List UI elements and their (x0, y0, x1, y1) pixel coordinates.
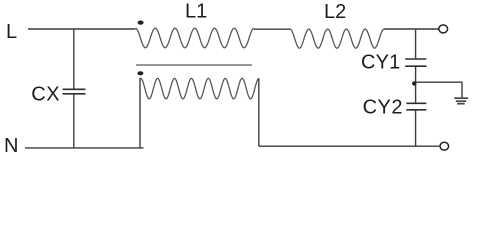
wire L2 to line output terminal (384, 28, 439, 30)
capacitor CX (63, 89, 86, 94)
svg-text:CY2: CY2 (363, 97, 403, 119)
svg-text:CY1: CY1 (361, 52, 401, 74)
wire CY2 to N line (415, 111, 417, 147)
wire top line to CY1 (415, 29, 417, 58)
capacitor CY2 (406, 103, 426, 110)
svg-text:CX: CX (31, 84, 60, 106)
terminal neutral output (440, 142, 449, 150)
wire N input line (25, 147, 144, 149)
wire junction to earth (416, 82, 462, 97)
wire CX top branch (73, 29, 75, 89)
wire lower winding left stub to N line (139, 78, 142, 147)
wire CX bottom branch (73, 95, 75, 148)
wire CY1 to CY2 (415, 67, 417, 103)
svg-text:N: N (4, 135, 18, 157)
wire N output line (259, 145, 439, 147)
capacitor CY1 (405, 59, 426, 66)
inductor L2 winding (290, 29, 384, 48)
ground symbol (454, 98, 468, 104)
lower winding of choke (N side) (141, 78, 259, 98)
wire L input to CX/L1 (28, 28, 136, 30)
junction node between CY1 and CY2 (412, 81, 416, 85)
terminal line output (439, 25, 448, 33)
polarity dot L1 (138, 21, 144, 25)
core line of common-mode choke (136, 64, 252, 66)
inductor L1 winding (136, 28, 255, 48)
wire L1 to L2 (254, 28, 290, 30)
polarity dot lower winding (137, 71, 143, 75)
svg-text:L2: L2 (324, 1, 346, 23)
wire lower winding right stub down (258, 78, 260, 146)
svg-text:L: L (6, 21, 17, 43)
svg-text:L1: L1 (185, 1, 207, 23)
